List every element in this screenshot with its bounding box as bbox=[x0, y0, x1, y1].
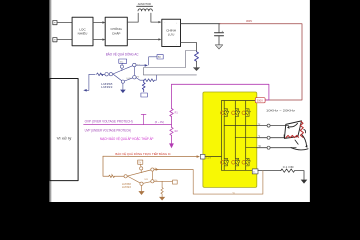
wire net below rectifier bbox=[144, 51, 197, 75]
resistor R3 (blue) bbox=[195, 52, 199, 62]
svg-text:5V/5: 5V/5 bbox=[144, 179, 148, 181]
svg-text:BẢO VỆ QUÁ DÒNG TRỰC TIẾP BẰNG: BẢO VỆ QUÁ DÒNG TRỰC TIẾP BẰNG IC bbox=[115, 151, 171, 156]
svg-text:300V: 300V bbox=[246, 19, 252, 23]
svg-text:(6 ~ 9V): (6 ~ 9V) bbox=[155, 120, 164, 124]
svg-text:MẠCH BẢO VỆ QUÁ ÁP HOẶC THẤP Á: MẠCH BẢO VỆ QUÁ ÁP HOẶC THẤP ÁP bbox=[100, 136, 154, 141]
op-amp U2 group bbox=[124, 160, 263, 200]
column 2 bbox=[234, 101, 236, 171]
inductor L1 bbox=[137, 5, 153, 7]
IGBT Q5 bbox=[232, 158, 240, 166]
resistor Rs 0.1 ohm bbox=[281, 169, 295, 172]
node U circle bbox=[267, 124, 270, 127]
svg-text:10KHz ~ 20KHz: 10KHz ~ 20KHz bbox=[266, 109, 296, 113]
resistor R5 vertical bbox=[142, 80, 145, 92]
svg-text:300V: 300V bbox=[257, 99, 263, 103]
ground G4 bbox=[141, 185, 143, 191]
arrow down end of divider bbox=[169, 143, 174, 148]
probe tick bbox=[143, 115, 145, 125]
white schematic sheet bbox=[49, 0, 310, 202]
wire filter to chong chap (bottom) bbox=[93, 39, 104, 41]
wire out U bbox=[257, 125, 289, 127]
ground for C1 bbox=[215, 45, 223, 49]
svg-text:Vi xử lý: Vi xử lý bbox=[57, 136, 72, 140]
resistor R7 bbox=[161, 181, 163, 197]
output wire U1 with arrow bbox=[136, 64, 145, 66]
out rail V bbox=[235, 137, 256, 139]
block LOC NHIEU (filter) bbox=[72, 17, 93, 46]
svg-text:In: In bbox=[111, 174, 113, 176]
svg-text:CHẬP: CHẬP bbox=[112, 32, 121, 36]
terminal C1N on block bbox=[200, 154, 205, 159]
wire shunt from I-sense bbox=[258, 170, 281, 172]
Vcc box U1 bbox=[119, 59, 127, 63]
svg-text:LM393: LM393 bbox=[122, 186, 132, 189]
svg-text:Out: Out bbox=[137, 63, 141, 66]
loop down to op2 input bbox=[103, 156, 109, 176]
wire out V bbox=[257, 135, 284, 138]
pin circles U1 bbox=[105, 73, 108, 76]
column 1 bbox=[223, 101, 225, 171]
wire rectifier to R3 bbox=[181, 43, 197, 52]
svg-text:LƯU: LƯU bbox=[168, 32, 175, 36]
wire to C1N bbox=[103, 155, 197, 157]
svg-text:C=5V: C=5V bbox=[126, 78, 132, 80]
label box 300V bbox=[255, 98, 265, 103]
IGBT Q2 bbox=[232, 109, 240, 117]
svg-text:BẢO VỆ QUÁ DÒNG AC: BẢO VỆ QUÁ DÒNG AC bbox=[106, 52, 139, 57]
wire J1 to filter bbox=[57, 22, 72, 24]
bottom rail bbox=[222, 169, 253, 171]
arrow into C1N bbox=[197, 155, 200, 158]
wire inverting side to box bbox=[154, 180, 172, 182]
svg-text:CHỐNG: CHỐNG bbox=[110, 26, 122, 31]
wire out W bbox=[257, 147, 296, 149]
yellow inverter block bbox=[203, 92, 257, 187]
svg-text:0.1 OM: 0.1 OM bbox=[283, 165, 294, 169]
terminal J2 bbox=[53, 38, 57, 42]
node W circle bbox=[267, 146, 270, 149]
wire from top line down bbox=[171, 84, 173, 108]
svg-text:UVP (UNDER VOLTAGE PROTECH): UVP (UNDER VOLTAGE PROTECH) bbox=[85, 129, 132, 133]
ground G1 bbox=[122, 83, 124, 89]
wire 300V red rail bbox=[220, 24, 303, 100]
block CHONG CHAP bbox=[105, 17, 127, 46]
IGBT Q1 bbox=[221, 109, 229, 117]
PO wire and divider resistor bbox=[136, 78, 144, 81]
IGBT Q4 bbox=[221, 158, 229, 166]
svg-text:5V: 5V bbox=[138, 163, 141, 165]
capacitor C1 bbox=[218, 24, 220, 33]
resistor R2 bbox=[170, 127, 173, 135]
label box below R5 bbox=[141, 93, 148, 97]
label box Pb bbox=[173, 180, 178, 184]
wire J2 to filter bbox=[57, 39, 72, 41]
top rail bbox=[222, 100, 257, 102]
column 3 bbox=[245, 101, 247, 171]
svg-text:OVP (OVER VOLTAGE PROTECH): OVP (OVER VOLTAGE PROTECH) bbox=[85, 120, 133, 124]
IGBT Q6 bbox=[242, 158, 250, 166]
terminal J1 bbox=[53, 21, 57, 25]
wire op1 divider output bbox=[144, 74, 197, 76]
op-amp U1 body bbox=[113, 65, 134, 82]
out rail W bbox=[246, 147, 257, 149]
motor sketch bbox=[284, 121, 308, 150]
wire filter to chong chap (top) bbox=[93, 22, 104, 24]
divider chain (magenta) bbox=[170, 84, 269, 143]
svg-text:LM393: LM393 bbox=[101, 85, 113, 89]
wire rectifier to cap node bbox=[181, 23, 221, 25]
svg-text:5V: 5V bbox=[158, 57, 161, 59]
orange control net bbox=[103, 156, 197, 177]
svg-text:C1N: C1N bbox=[206, 156, 211, 159]
5V label box bbox=[157, 55, 163, 59]
svg-text:ACMOTOR: ACMOTOR bbox=[138, 2, 151, 6]
svg-text:U: U bbox=[259, 123, 261, 126]
IGBT Q3 bbox=[242, 109, 250, 117]
block VI XU LI (processor) bbox=[50, 79, 78, 181]
svg-text:NHIỄU: NHIỄU bbox=[78, 30, 88, 35]
magenta top run to 300V box bbox=[172, 84, 269, 100]
terminal I-sense on block bbox=[252, 169, 258, 174]
op-amp U2 body bbox=[127, 170, 152, 184]
ground G3 bbox=[301, 180, 308, 184]
resistor R1 bbox=[170, 109, 173, 117]
bridge interior bbox=[205, 101, 257, 171]
output wire U2 bbox=[154, 170, 263, 195]
svg-text:Vcc: Vcc bbox=[120, 61, 123, 63]
wire inductor to rectifier bbox=[151, 13, 160, 22]
wire chong chap to inductor bbox=[127, 13, 138, 22]
gate bus bbox=[205, 101, 222, 171]
ground G2 bbox=[193, 67, 200, 71]
resistor R in+ bbox=[97, 73, 104, 76]
wire OVP tap (magenta) bbox=[84, 114, 172, 124]
out rail U bbox=[224, 125, 257, 127]
resistor on op2 input bbox=[109, 175, 115, 177]
wire input from left with arrow to VI XU LI bbox=[86, 74, 105, 90]
wire chong chap to rectifier (bottom) bbox=[127, 38, 158, 40]
ground G5 bbox=[159, 197, 165, 201]
Vcc box U2 bbox=[138, 160, 143, 164]
wire to ground bbox=[295, 171, 304, 180]
block CHINH LUU (rectifier) bbox=[162, 19, 181, 46]
op-amp U1 group bbox=[83, 55, 163, 97]
node V circle bbox=[267, 136, 270, 139]
